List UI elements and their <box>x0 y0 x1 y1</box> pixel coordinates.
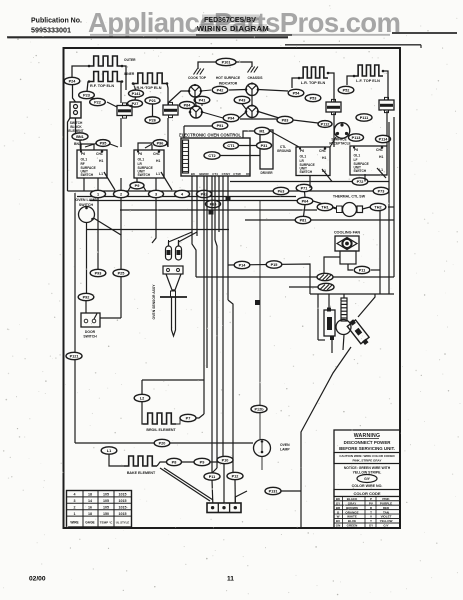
indicator lamp 3 <box>190 106 202 118</box>
svg-text:OL1: OL1 <box>81 158 88 162</box>
connector hatched BK2 <box>318 283 334 290</box>
connector P6-3 <box>273 187 289 194</box>
svg-text:P64: P64 <box>302 200 310 204</box>
svg-text:1: 1 <box>97 193 99 197</box>
wire <box>176 418 180 424</box>
connector TB-3 <box>149 190 164 197</box>
wire TH2 right <box>388 206 394 208</box>
svg-text:ELECTRONIC OVEN CONTROL: ELECTRONIC OVEN CONTROL <box>179 133 242 138</box>
svg-text:TEMP °C: TEMP °C <box>100 521 113 525</box>
svg-text:P96: P96 <box>157 142 164 146</box>
wire <box>91 98 95 99</box>
electronic oven control U1 <box>181 138 250 176</box>
connector P6-4 <box>297 197 313 204</box>
wire sensor leads <box>168 240 170 246</box>
svg-text:P81: P81 <box>300 219 307 223</box>
svg-text:OVEN LAMP: OVEN LAMP <box>75 198 97 202</box>
svg-text:P: P <box>370 497 372 501</box>
svg-text:OL1: OL1 <box>300 155 307 159</box>
svg-text:R.H. TOP ELN: R.H. TOP ELN <box>137 86 162 90</box>
wire x318 down <box>317 294 319 340</box>
connector P8-3 <box>277 116 293 123</box>
LF surface unit switch <box>350 146 387 175</box>
connector TB-2 <box>114 190 129 197</box>
svg-text:SWITCH: SWITCH <box>300 170 313 174</box>
svg-text:P10: P10 <box>222 459 229 463</box>
RF surface unit switch <box>77 150 107 178</box>
svg-text:5995333001: 5995333001 <box>31 26 71 35</box>
connector P11-2 <box>318 121 332 128</box>
wire gauge table <box>67 491 132 528</box>
bus wire row 210 <box>120 209 317 211</box>
svg-text:P12: P12 <box>232 475 239 479</box>
connector P2-4 <box>64 77 80 84</box>
wire to S3 <box>270 131 299 147</box>
svg-text:INDICATOR: INDICATOR <box>219 82 238 86</box>
bus jog <box>128 186 146 191</box>
wire switch diag <box>104 172 115 190</box>
wire <box>347 76 354 85</box>
svg-text:COOLING FAN: COOLING FAN <box>334 231 361 235</box>
svg-text:VIOLET: VIOLET <box>381 515 392 519</box>
svg-text:P42: P42 <box>217 89 224 93</box>
svg-text:G/Y: G/Y <box>364 477 371 481</box>
wire y277 right <box>333 276 394 278</box>
wire relay bottom <box>331 340 333 353</box>
svg-text:P52: P52 <box>343 89 350 93</box>
connector P10-1 <box>216 58 236 65</box>
connector P6-2 <box>197 190 212 197</box>
svg-text:R.F. TOP ELN: R.F. TOP ELN <box>90 84 114 88</box>
wire <box>122 66 126 90</box>
wire <box>348 264 353 270</box>
svg-text:ORANGE: ORANGE <box>345 510 358 514</box>
connector <box>227 472 243 479</box>
connector P4-1 <box>194 96 210 103</box>
svg-text:02/00: 02/00 <box>29 576 46 583</box>
wire lamp vertical <box>259 200 261 439</box>
wire <box>87 82 88 92</box>
wire y380 to L2 <box>142 379 204 381</box>
bus wire row 191 <box>68 190 374 192</box>
svg-text:CT2: CT2 <box>208 154 215 158</box>
wires into terminal block <box>160 468 210 501</box>
cook top ground <box>197 66 199 69</box>
connector P12-1 <box>66 352 82 359</box>
wire <box>138 143 152 150</box>
wire fan right up <box>371 269 380 271</box>
svg-text:OVEN: OVEN <box>280 443 290 447</box>
wire motor circle down <box>343 335 344 351</box>
wire limiter3 down <box>333 113 335 147</box>
svg-text:P25: P25 <box>118 272 125 276</box>
svg-text:P31: P31 <box>261 144 268 148</box>
wire lamp sw bus <box>87 229 230 231</box>
svg-text:CAUTION WIRE: WIRE COLOR CODED: CAUTION WIRE: WIRE COLOR CODED <box>339 454 395 458</box>
LR surface unit switch <box>134 150 164 178</box>
svg-text:GY: GY <box>336 501 340 505</box>
connector jog oval <box>130 182 144 189</box>
svg-text:TAN: TAN <box>383 510 389 514</box>
svg-text:L.R. TOP ELN: L.R. TOP ELN <box>301 81 326 85</box>
svg-text:WIRE: WIRE <box>70 521 78 525</box>
wire <box>157 462 166 466</box>
svg-text:DOOR: DOOR <box>85 330 96 334</box>
connector P6-5 <box>206 200 221 207</box>
svg-text:P6: P6 <box>300 149 304 153</box>
svg-text:P7: P7 <box>186 417 191 421</box>
sensor flange <box>160 296 187 298</box>
svg-text:P131: P131 <box>269 490 278 494</box>
svg-text:H1: H1 <box>379 155 383 159</box>
wire bundle bends <box>212 468 217 473</box>
svg-text:UL STYLE: UL STYLE <box>116 521 130 525</box>
surface element RF outer <box>89 56 122 66</box>
connector P11-3 <box>349 134 364 141</box>
oven lamp <box>254 440 271 457</box>
wire 215-217 chain <box>215 240 217 468</box>
svg-text:LAMP: LAMP <box>280 448 290 452</box>
svg-text:L1: L1 <box>107 449 111 453</box>
svg-text:P9: P9 <box>200 461 205 465</box>
wire <box>198 62 216 66</box>
connector P2-1 <box>145 97 160 104</box>
connector P9-5 <box>96 140 110 147</box>
svg-text:P112: P112 <box>321 123 330 127</box>
surface element RF inner <box>89 72 122 82</box>
svg-text:BLACK: BLACK <box>347 497 358 501</box>
wire <box>134 84 136 90</box>
wire <box>167 84 168 106</box>
connector P9-1 <box>212 122 228 129</box>
wire <box>72 66 89 78</box>
connector P4-2 <box>212 86 228 93</box>
svg-text:P91: P91 <box>217 124 224 128</box>
wire <box>121 82 122 104</box>
svg-text:TH2: TH2 <box>374 206 381 210</box>
G/Y oval <box>357 475 377 483</box>
limiter 2 <box>163 105 178 115</box>
svg-text:1015: 1015 <box>119 499 127 503</box>
svg-text:P72: P72 <box>357 180 364 184</box>
svg-text:SWITCH: SWITCH <box>83 335 97 339</box>
connector CT-2 <box>204 152 220 159</box>
svg-text:P101: P101 <box>222 61 231 65</box>
connector P5-4 <box>288 89 304 96</box>
wire igniter top <box>343 294 345 298</box>
bus wire y287 <box>289 286 318 288</box>
svg-text:3: 3 <box>155 193 157 197</box>
wire <box>75 118 77 133</box>
sensor lead cylinders <box>166 246 172 260</box>
svg-text:150: 150 <box>103 512 109 516</box>
svg-text:CT/W: CT/W <box>233 172 241 176</box>
svg-text:P23: P23 <box>83 94 90 98</box>
connector CT-1 <box>224 142 239 149</box>
connector bake right <box>167 458 182 465</box>
connector P7-1 <box>296 184 312 191</box>
wire <box>328 73 334 102</box>
LR surface switch right <box>296 147 330 176</box>
svg-text:Y: Y <box>370 519 372 523</box>
svg-text:WHITE: WHITE <box>347 515 357 519</box>
svg-text:THERMAL CTL SW: THERMAL CTL SW <box>333 195 366 199</box>
wire <box>109 454 124 466</box>
wire relay top <box>328 294 330 308</box>
wire left vertical <box>74 193 76 443</box>
wire bundle short <box>191 176 193 236</box>
wire lamp bottom <box>261 456 263 470</box>
svg-text:P15: P15 <box>271 263 278 267</box>
wire <box>142 402 143 424</box>
wire <box>85 301 87 313</box>
bake element <box>124 456 157 466</box>
svg-text:PINK, STRIPE GRAY: PINK, STRIPE GRAY <box>353 459 382 463</box>
svg-text:BN/OR: BN/OR <box>199 172 209 176</box>
svg-text:P54: P54 <box>293 92 301 96</box>
wire <box>333 208 337 209</box>
wire limiter4 down <box>386 111 388 146</box>
svg-text:3: 3 <box>74 499 76 503</box>
wire lamps right <box>258 90 288 92</box>
connector M-1 <box>255 127 270 134</box>
connector P9-6 <box>153 140 167 147</box>
svg-text:COLOR CODE: COLOR CODE <box>353 491 380 496</box>
connector P5-2 <box>338 86 354 93</box>
connector P4-3 <box>234 96 250 103</box>
wire switch drops <box>97 178 99 190</box>
connector L-1 <box>101 447 117 454</box>
wire <box>292 78 299 88</box>
surface element RH <box>133 73 167 84</box>
svg-text:P6: P6 <box>81 152 85 156</box>
svg-text:1015: 1015 <box>119 493 127 497</box>
svg-text:1015: 1015 <box>119 506 127 510</box>
svg-text:OVEN SENSOR ASSY: OVEN SENSOR ASSY <box>152 284 156 320</box>
wire p96 stubs <box>145 144 153 149</box>
wire fan left <box>324 257 340 273</box>
wire lamp sw bottom <box>86 223 88 294</box>
connector P9-3 <box>90 269 106 276</box>
svg-text:COOK TOP: COOK TOP <box>188 76 207 80</box>
oven lamp switch <box>79 207 95 223</box>
svg-text:P22: P22 <box>94 101 101 105</box>
svg-text:P6: P6 <box>354 148 358 152</box>
connector P11-4 <box>376 135 391 142</box>
svg-text:105: 105 <box>103 493 109 497</box>
connector BN-1 oval <box>72 133 88 140</box>
svg-text:G/Y: G/Y <box>383 524 388 528</box>
limiter 3 <box>326 102 341 112</box>
svg-text:BLUE: BLUE <box>348 519 356 523</box>
wire <box>81 144 94 150</box>
svg-text:V: V <box>370 515 372 519</box>
wire <box>79 140 82 150</box>
svg-text:OL1: OL1 <box>354 154 361 158</box>
svg-text:DRIVER: DRIVER <box>260 171 273 175</box>
svg-text:SWITCH: SWITCH <box>354 169 367 173</box>
wire limiter1 down <box>120 118 122 147</box>
svg-text:GY: GY <box>369 524 373 528</box>
color code table <box>334 490 400 497</box>
connector P11-1 <box>356 114 372 121</box>
svg-text:P83: P83 <box>282 119 289 123</box>
svg-text:P73: P73 <box>378 190 385 194</box>
surface element LR <box>299 67 328 78</box>
surface element LF <box>354 65 383 76</box>
connector hatched BK1 <box>317 273 333 280</box>
latch motor box <box>260 130 273 169</box>
svg-text:NOTICE: GREEN WIRE WITH: NOTICE: GREEN WIRE WITH <box>344 466 391 470</box>
wire <box>201 90 211 91</box>
connector TB-4 <box>175 190 190 197</box>
sensor body <box>163 266 183 274</box>
connector P2-3 <box>79 91 95 98</box>
sensor shaft <box>172 297 176 336</box>
svg-text:GRAY: GRAY <box>348 501 356 505</box>
svg-text:GREEN: GREEN <box>347 524 358 528</box>
relay box vertical <box>324 310 335 336</box>
svg-text:P71: P71 <box>301 187 308 191</box>
switch block <box>70 102 81 118</box>
svg-text:P43: P43 <box>239 99 246 103</box>
svg-text:P92: P92 <box>83 296 90 300</box>
wire <box>236 62 252 64</box>
svg-text:1015: 1015 <box>119 512 127 516</box>
connector P3-1 <box>257 142 272 149</box>
svg-text:L1: L1 <box>156 172 160 176</box>
svg-text:P9: P9 <box>135 184 140 188</box>
right vertical wires <box>388 122 390 294</box>
svg-text:BU: BU <box>336 519 340 523</box>
connector broil right <box>180 414 196 421</box>
svg-text:PINK: PINK <box>382 497 390 501</box>
svg-text:W: W <box>337 515 340 519</box>
svg-text:16: 16 <box>88 506 92 510</box>
svg-text:CT1: CT1 <box>227 144 234 148</box>
wire s1 stub <box>83 178 85 191</box>
connector TH-1 <box>317 203 333 210</box>
svg-text:YELLOW: YELLOW <box>380 519 393 523</box>
svg-text:P14: P14 <box>239 264 247 268</box>
svg-text:BAKE ELEMENT: BAKE ELEMENT <box>127 471 156 475</box>
svg-text:CT/BY: CT/BY <box>222 172 231 176</box>
wire limiter2 down <box>167 118 169 147</box>
indicator lamp 2 <box>246 84 258 96</box>
svg-text:GROUND: GROUND <box>277 149 292 153</box>
wire limiter2 lamp diag <box>168 91 189 103</box>
schematic border <box>64 48 401 528</box>
wire oval drops <box>97 198 99 277</box>
connector P7-2 <box>352 178 368 185</box>
broil element <box>143 413 176 424</box>
wire <box>202 112 223 118</box>
connector P14-1 <box>129 90 144 97</box>
svg-text:P6: P6 <box>138 152 142 156</box>
wire recep diag <box>330 137 336 147</box>
svg-text:L.F. TOP ELN: L.F. TOP ELN <box>356 79 380 83</box>
connector on 443 <box>154 439 170 446</box>
svg-text:P53: P53 <box>310 97 317 101</box>
wire <box>73 85 76 102</box>
svg-text:L2: L2 <box>140 397 144 401</box>
indicator lamp 4 <box>246 106 258 118</box>
connector <box>217 456 233 463</box>
wire x196 down <box>192 236 196 277</box>
wire y294 long <box>310 293 394 295</box>
connector P1-1 <box>354 266 370 273</box>
wire <box>107 102 117 107</box>
svg-text:PURPLE: PURPLE <box>380 501 392 505</box>
svg-text:HOT SURFACE: HOT SURFACE <box>216 76 241 80</box>
connector P2-6 <box>145 117 160 124</box>
svg-text:TH1: TH1 <box>321 206 328 210</box>
svg-text:105: 105 <box>103 499 109 503</box>
bus wire row 196 <box>77 196 296 198</box>
surface receptacle <box>334 123 350 139</box>
wire y119 rail <box>240 118 277 120</box>
wire s2 stub <box>136 178 138 182</box>
wire <box>383 71 388 100</box>
bus wire row 181 <box>230 181 352 183</box>
svg-text:P111: P111 <box>360 116 368 120</box>
svg-text:P114: P114 <box>379 138 389 142</box>
fan motor box <box>340 251 356 264</box>
wire lamp sw diag <box>94 218 122 318</box>
svg-text:H1: H1 <box>156 159 160 163</box>
door switch <box>81 313 100 327</box>
connector P8-1 <box>295 216 311 223</box>
svg-text:COLOR WIRE NO.: COLOR WIRE NO. <box>352 484 383 488</box>
svg-text:2: 2 <box>74 506 76 510</box>
connector P2-5 <box>113 269 129 276</box>
svg-text:Publication No.: Publication No. <box>31 18 82 25</box>
bus wire y443 <box>75 442 253 444</box>
svg-text:105: 105 <box>103 506 109 510</box>
wire oval26 stub <box>152 104 154 117</box>
caution box <box>334 453 400 464</box>
wire bundle long <box>203 176 205 414</box>
wire to thermal <box>313 201 336 208</box>
connector P5-3 <box>305 94 321 101</box>
wire oval row 265 <box>228 264 310 294</box>
connector TH-2 <box>370 203 386 210</box>
wire door to right <box>100 317 121 319</box>
igniter coil <box>341 298 347 321</box>
svg-text:P11: P11 <box>359 269 366 273</box>
svg-text:P121: P121 <box>70 355 79 359</box>
svg-text:P41: P41 <box>199 99 206 103</box>
limiter 4 <box>379 100 394 110</box>
terminal block <box>207 503 241 513</box>
wire diag comp up <box>358 294 375 317</box>
svg-text:P24: P24 <box>69 80 77 84</box>
junction mid <box>255 300 260 305</box>
svg-text:P21: P21 <box>149 99 156 103</box>
svg-text:P8: P8 <box>172 461 177 465</box>
wire p71-p64-p81 chain <box>304 192 307 198</box>
svg-text:11: 11 <box>227 576 234 583</box>
wire lamp columns <box>195 97 196 106</box>
conv motor <box>336 320 351 335</box>
model title FED367CES/BV <box>202 15 259 24</box>
connector P9-2b <box>78 293 94 300</box>
wire probe lead slants <box>169 232 193 246</box>
svg-text:P113: P113 <box>352 136 361 140</box>
svg-text:BROIL ELEMENT: BROIL ELEMENT <box>146 428 176 432</box>
svg-text:14: 14 <box>88 499 92 503</box>
svg-text:CHASSIS: CHASSIS <box>247 76 263 80</box>
